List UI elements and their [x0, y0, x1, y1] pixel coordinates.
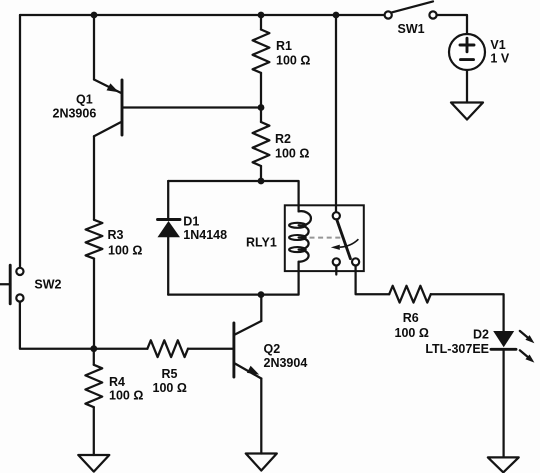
relay NC stub: [335, 266, 337, 275]
resistor R1: [253, 15, 270, 108]
label 1N4148: [183, 228, 227, 242]
value R3 100 ohm: [108, 244, 142, 258]
label Q1: [76, 92, 93, 106]
wire Q2 emitter to ground: [260, 379, 262, 454]
wire R5 to Q2 base: [188, 348, 233, 350]
resistor R4: [85, 349, 102, 455]
label D1: [183, 215, 199, 229]
svg-text:RLY1: RLY1: [246, 236, 277, 250]
wire top rail: [20, 14, 385, 16]
node dot Q2 collector / D1 / coil: [258, 291, 265, 298]
relay common contact: [333, 212, 340, 219]
ground (R4): [78, 455, 109, 472]
wire SW1 to V1: [437, 15, 467, 34]
wire R6 to D2: [431, 294, 504, 331]
relay NO contact: [352, 258, 359, 265]
svg-text:R5: R5: [162, 367, 178, 381]
label R6: [403, 311, 419, 325]
label SW2: [34, 278, 61, 292]
switch SW1: [385, 1, 437, 18]
value R4 100 ohm: [109, 389, 143, 403]
label Q2: [264, 342, 281, 356]
wire Q1 emitter from top rail: [93, 15, 95, 80]
wire R3 to bottom node: [93, 259, 95, 349]
node dot top rail / Q1 emitter: [91, 12, 98, 19]
LED D2 light arrows: [520, 331, 535, 363]
relay NC contact: [333, 258, 340, 265]
wire D1 anode lead: [167, 181, 169, 220]
svg-text:R6: R6: [403, 311, 419, 325]
wire SW2 to bottom node: [20, 302, 94, 349]
svg-text:1 V: 1 V: [490, 52, 509, 66]
svg-text:R4: R4: [109, 375, 125, 389]
wire V1 to ground: [466, 70, 468, 103]
relay blade: [337, 220, 351, 259]
resistor R3: [86, 220, 103, 259]
label D2: [473, 327, 489, 341]
label R1: [276, 39, 292, 53]
ground (Q2): [246, 454, 277, 471]
ground (V1): [451, 103, 483, 120]
svg-text:SW2: SW2: [34, 278, 61, 292]
node dot R2 bottom: [258, 178, 265, 185]
value R1 100 ohm: [276, 53, 310, 67]
svg-text:R3: R3: [108, 228, 124, 242]
svg-text:Q1: Q1: [76, 92, 93, 106]
wire node to D1 top: [168, 181, 298, 211]
svg-text:100 Ω: 100 Ω: [275, 147, 309, 161]
svg-text:100 Ω: 100 Ω: [108, 244, 142, 258]
node dot top rail / R1: [258, 12, 265, 19]
node dot top rail / relay common: [333, 12, 340, 19]
svg-text:2N3904: 2N3904: [264, 356, 308, 370]
relay dashed actuation link: [310, 237, 342, 239]
label RLY1: [246, 236, 277, 250]
svg-text:R2: R2: [275, 132, 291, 146]
LED D2: [491, 331, 516, 349]
node dot R1/R2/Q1 base: [258, 104, 265, 111]
wire top rail to relay common: [335, 15, 337, 212]
diode D1: [158, 220, 181, 238]
transistor Q1: [94, 80, 122, 137]
svg-text:V1: V1: [490, 38, 505, 52]
label 2N3904: [264, 356, 308, 370]
svg-text:R1: R1: [276, 39, 292, 53]
svg-text:1N4148: 1N4148: [183, 228, 227, 242]
transistor Q2: [234, 321, 261, 379]
svg-text:100 Ω: 100 Ω: [395, 326, 429, 340]
value R2 100 ohm: [275, 147, 309, 161]
relay RLY1 box: [285, 205, 364, 271]
wire D2 to ground: [502, 349, 504, 457]
voltage source V1: [449, 34, 485, 70]
relay blade rotation arrow: [331, 239, 359, 250]
relay coil: [289, 211, 311, 262]
wire Q2 collector to node: [260, 295, 262, 321]
svg-text:SW1: SW1: [398, 22, 425, 36]
label V1: [490, 38, 505, 52]
wire node to R5: [94, 348, 148, 350]
label R2: [275, 132, 291, 146]
push button SW2: [0, 265, 24, 304]
node dot R4/R5: [90, 345, 97, 352]
label R3: [108, 228, 124, 242]
svg-text:100 Ω: 100 Ω: [109, 389, 143, 403]
value R6 100 ohm: [395, 326, 429, 340]
wire left rail: [19, 15, 21, 268]
svg-text:D1: D1: [183, 215, 199, 229]
resistor R6: [389, 286, 431, 303]
label LTL-307EE: [425, 342, 489, 356]
wire Q1 collector to R3: [93, 136, 95, 220]
label SW1: [398, 22, 425, 36]
ground (D2): [488, 457, 519, 472]
svg-text:LTL-307EE: LTL-307EE: [425, 342, 489, 356]
svg-text:100 Ω: 100 Ω: [153, 381, 187, 395]
svg-text:100 Ω: 100 Ω: [276, 53, 310, 67]
label R5: [162, 367, 178, 381]
wire bottom node to relay coil: [168, 262, 298, 295]
wire D1 cathode to bottom node: [167, 237, 169, 294]
label 2N3906: [53, 106, 97, 120]
wire Q1 base to R1/R2 node: [123, 106, 261, 108]
label R4: [109, 375, 125, 389]
resistor R2: [253, 108, 270, 182]
svg-text:D2: D2: [473, 327, 489, 341]
resistor R5: [147, 340, 188, 357]
value R5 100 ohm: [153, 381, 187, 395]
value 1 V: [490, 52, 509, 66]
wire relay NO to R6: [356, 266, 390, 295]
svg-text:2N3906: 2N3906: [53, 106, 97, 120]
svg-text:Q2: Q2: [264, 342, 281, 356]
